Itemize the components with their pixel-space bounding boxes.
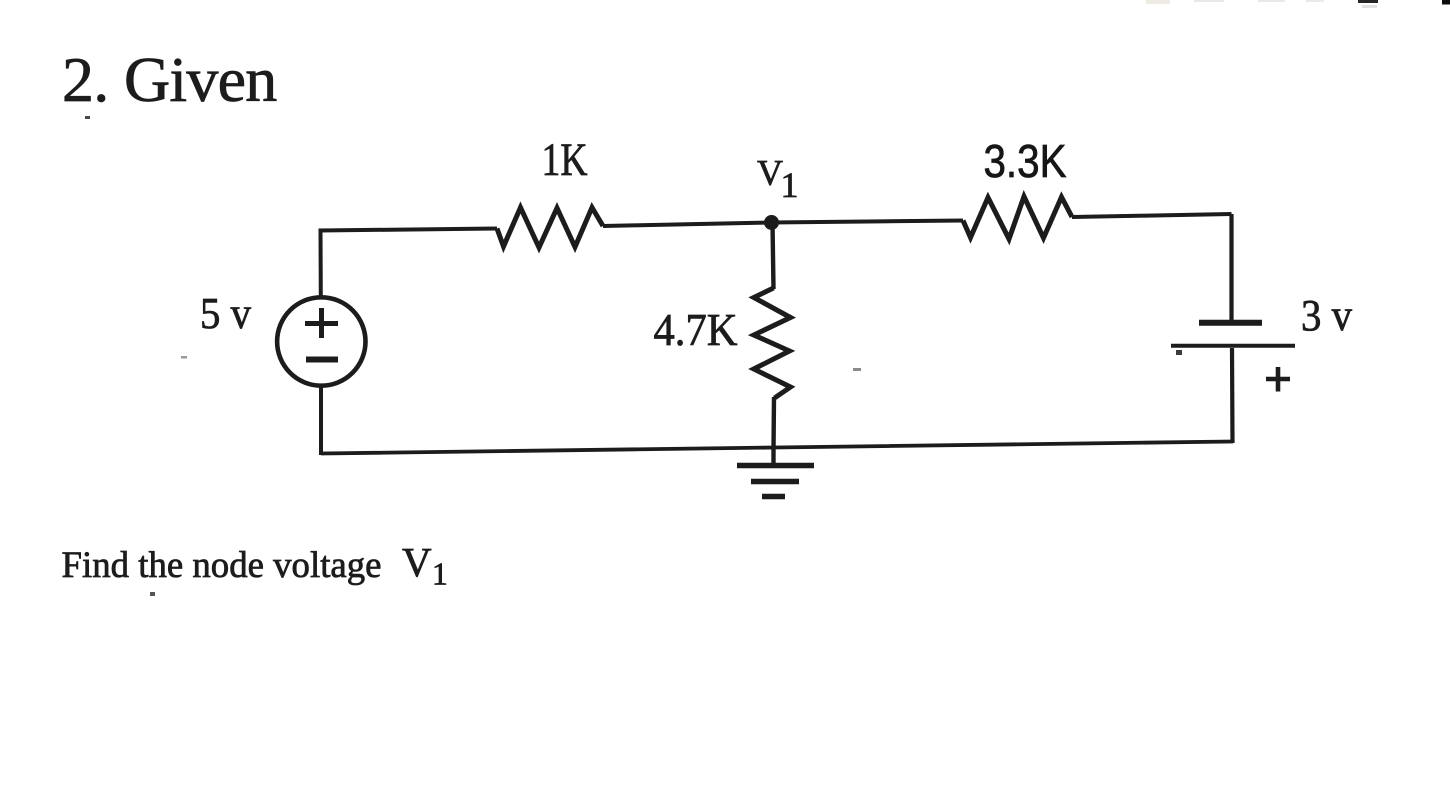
ground bar 1	[737, 463, 814, 469]
wire: top segment C (3.3K to top-right corner)	[1072, 214, 1232, 217]
resistor R2 3.3K	[963, 197, 1072, 240]
battery B1 3v: short top plate	[1199, 320, 1262, 326]
svg-text:2.: 2.	[62, 44, 108, 115]
wire: top segment A (corner to 1K)	[319, 229, 498, 231]
svg-text:3 v: 3 v	[1301, 291, 1352, 340]
ground bar 3	[762, 494, 785, 500]
ground bar 2	[751, 479, 799, 485]
wire: bottom rail	[321, 442, 1233, 454]
battery small tick mark	[1176, 350, 1182, 355]
voltage source VS1 5v (circle with + -)	[277, 297, 365, 385]
wire: 4.7K upper lead from node	[773, 223, 774, 290]
svg-text:Given: Given	[124, 44, 277, 115]
svg-text:1: 1	[781, 165, 799, 205]
svg-text:V: V	[402, 539, 432, 585]
wire: 4.7K lower lead to bottom rail	[771, 397, 776, 450]
svg-text:V: V	[757, 153, 783, 193]
battery B1 3v: long bottom plate	[1171, 344, 1295, 348]
wire: top segment B (1K to node V1 to 3.3K)	[603, 221, 963, 227]
svg-text:4.7K: 4.7K	[654, 304, 738, 355]
svg-text:1K: 1K	[542, 135, 588, 186]
svg-text:5 v: 5 v	[200, 289, 251, 338]
node label V1	[757, 153, 799, 206]
ground stub	[771, 450, 775, 464]
wire: left vertical lower (source to bottom-left corner)	[319, 387, 323, 456]
question text	[62, 539, 448, 596]
svg-text:1: 1	[432, 557, 448, 592]
wire: right vertical lower (battery to bottom-right corner)	[1230, 348, 1235, 443]
title "2. Given"	[62, 44, 277, 119]
wire: left vertical upper (source to top-left corner)	[319, 229, 323, 298]
node V1 junction dot	[764, 215, 779, 230]
resistor R3 4.7K (vertical)	[754, 288, 791, 398]
scan artifact: faint dot mid page	[853, 368, 861, 371]
scan artifacts: top edge cut-off marks	[1146, 0, 1170, 4]
svg-text:3.3K: 3.3K	[984, 135, 1067, 187]
resistor R1 1K	[497, 208, 603, 248]
svg-text:Find the node voltage: Find the node voltage	[62, 545, 382, 586]
battery polarity +	[1266, 367, 1290, 392]
wire: right vertical upper (corner to battery)	[1229, 214, 1233, 320]
scan artifact: faint dash left of source	[181, 356, 187, 359]
